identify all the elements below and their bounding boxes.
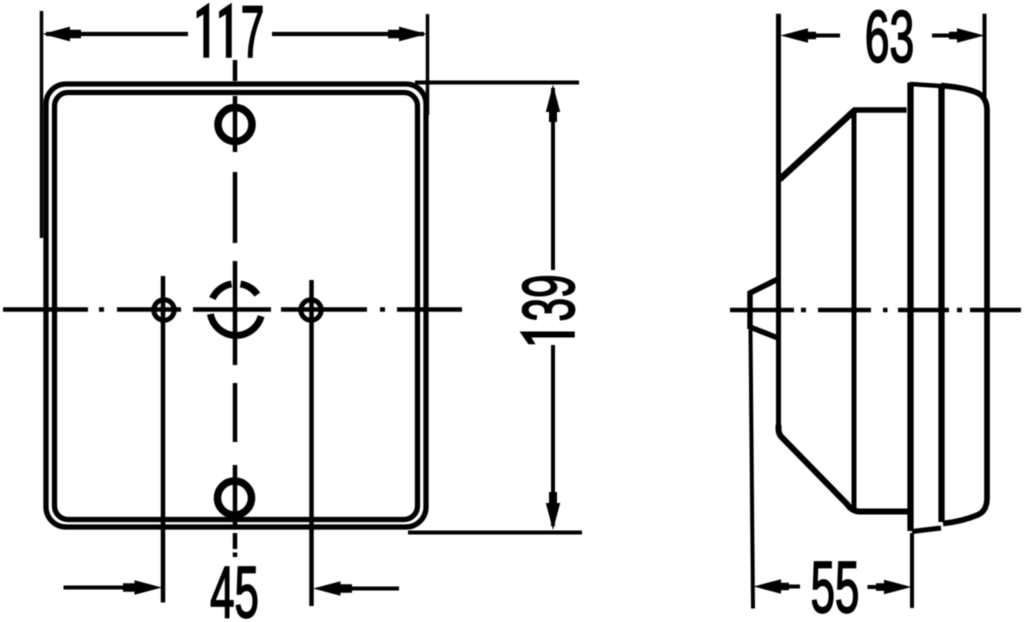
svg-text:39: 39: [508, 274, 590, 321]
svg-text:45: 45: [210, 552, 259, 622]
svg-text:63: 63: [865, 0, 915, 78]
svg-text:55: 55: [811, 547, 860, 622]
svg-text:7: 7: [241, 0, 265, 73]
